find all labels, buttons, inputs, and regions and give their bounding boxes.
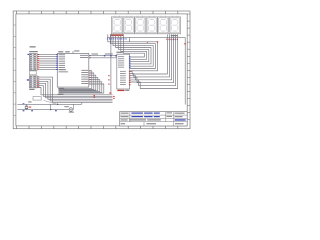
- label J2 (text): [29, 89, 34, 90]
- op-amp/MCU IC U1: [57, 54, 89, 88]
- net label above U1-RN1 wires (text): [105, 54, 113, 55]
- wire bus DS1-DS3 segment nets (nested to RN1 pins): [108, 34, 158, 70]
- net label box L2: [33, 97, 41, 101]
- designator label DS1 (red): [111, 34, 124, 36]
- pin numbers DS6 (red): [166, 39, 177, 40]
- pin number J1 top-left (blue): [28, 54, 30, 55]
- label Y1 (text): [28, 101, 31, 102]
- label Q1 (text): [64, 106, 69, 107]
- value label RN1 bottom (red): [117, 90, 124, 91]
- crystal Y1 between rails: [25, 104, 28, 109]
- wire bus U1 right staircase: [59, 71, 104, 93]
- junction (blue): [104, 55, 106, 56]
- wire bus J1 to U1: [39, 55, 57, 70]
- value label Y1 (red): [29, 107, 32, 108]
- net label box L1: [29, 71, 36, 75]
- label below U1 (text): [58, 94, 64, 95]
- 7-segment display DS6: [169, 16, 181, 34]
- junction nest corner (red): [147, 42, 148, 43]
- wire common net rail across displays: [107, 36, 185, 38]
- power flag +5V at J2 (blue): [27, 79, 29, 80]
- wire oscillator upper rail: [17, 103, 82, 105]
- junction on lower rail: [50, 109, 51, 110]
- pin number on rail (red): [184, 43, 186, 44]
- wire U1 top stub: [72, 51, 74, 54]
- wire DS1 pin drop to U1-RN1 net: [110, 34, 112, 56]
- pin numbers U1 right (red): [89, 55, 91, 84]
- junction dots lower bus (red): [113, 96, 114, 97]
- wire common rail right drop: [184, 37, 186, 104]
- wire link between rails: [50, 104, 52, 109]
- junction on upper rail: [57, 104, 59, 106]
- connector J1: [29, 54, 37, 71]
- transistor Q1 (oscillator circle): [69, 104, 74, 111]
- 7-segment display DS5: [158, 16, 170, 34]
- pin numbers U1 left (blue): [56, 54, 58, 70]
- 7-segment display DS3: [135, 16, 147, 34]
- junction top right (red): [157, 41, 158, 42]
- designator label DS6 (text): [171, 35, 178, 36]
- wire oscillator lower rail: [17, 109, 69, 111]
- label U1 bottom (text): [58, 88, 64, 89]
- wire U1 to RN1 (two nets): [89, 55, 117, 57]
- title block: [120, 112, 188, 127]
- junction dots mid (red): [94, 95, 95, 96]
- net label on lower rail (blue): [23, 110, 25, 111]
- wire leader from label box L2: [44, 100, 57, 104]
- label RN1 (text): [116, 52, 122, 53]
- pin numbers DS1-DS2 (blue): [107, 38, 127, 39]
- wire bus RN1 to DS6: [130, 34, 178, 88]
- resistor network RN1: [117, 54, 130, 89]
- wire bus J2 staircase to lower bus: [37, 77, 112, 102]
- connector J2: [29, 76, 37, 88]
- net label on upper rail (blue): [23, 103, 25, 104]
- net label at node bottom (red): [109, 93, 111, 94]
- pin number RN1 left top (blue): [115, 55, 117, 56]
- label U1 (text): [58, 51, 63, 52]
- 7-segment display DS1: [111, 16, 123, 34]
- 7-segment display DS2: [123, 16, 134, 34]
- pin numbers staircase (red): [108, 75, 109, 76]
- pin numbers RN1 right (blue upper, red lower): [129, 56, 131, 85]
- label J1 (text): [30, 46, 36, 47]
- wire vertical node at RN1 left: [110, 56, 112, 93]
- 7-segment display DS4: [146, 16, 158, 34]
- pin numbers J1 (red): [38, 54, 40, 70]
- pin numbers J2 (red): [38, 76, 40, 87]
